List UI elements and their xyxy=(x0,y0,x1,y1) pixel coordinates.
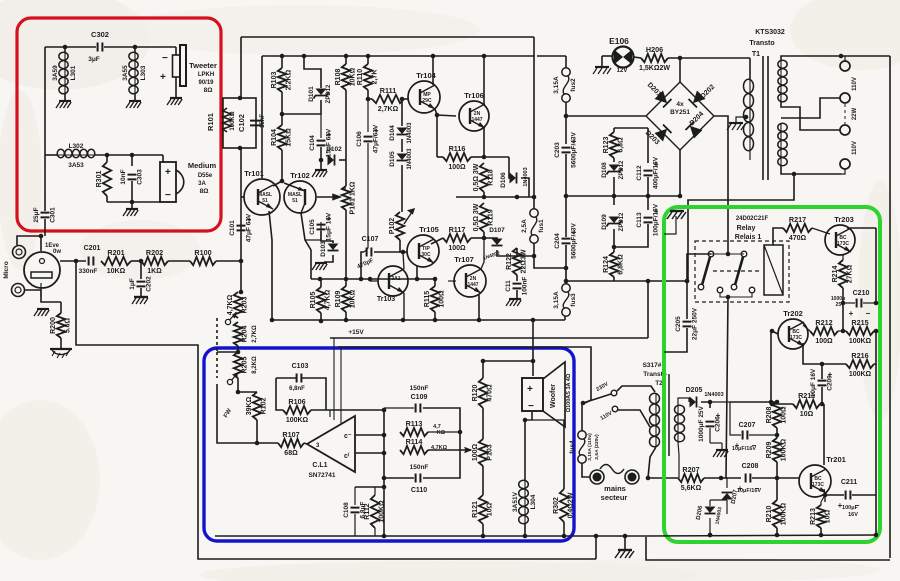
ground xyxy=(132,297,148,304)
resistor R123 xyxy=(603,132,625,158)
svg-text:R118: R118 xyxy=(488,169,495,185)
diode D106 xyxy=(510,173,517,184)
svg-text:Tr201: Tr201 xyxy=(826,455,846,464)
wire xyxy=(60,302,62,313)
svg-text:D107: D107 xyxy=(489,227,505,234)
resistor R114 xyxy=(400,437,428,454)
svg-text:1,5KΩ2W: 1,5KΩ2W xyxy=(639,65,670,72)
wire xyxy=(320,147,322,160)
wire xyxy=(776,528,778,535)
wire xyxy=(106,155,108,162)
wire xyxy=(521,178,529,197)
junction xyxy=(482,54,487,59)
svg-text:C302: C302 xyxy=(91,30,109,39)
junction xyxy=(415,277,420,282)
junction xyxy=(532,195,537,200)
red highlight box (crossover section) xyxy=(17,18,221,231)
svg-text:Relay: Relay xyxy=(737,225,756,232)
svg-text:100Ω: 100Ω xyxy=(781,406,788,424)
diode D201 xyxy=(646,82,672,108)
junction xyxy=(769,400,774,405)
svg-text:L302: L302 xyxy=(69,143,84,150)
svg-text:6,8Ω: 6,8Ω xyxy=(618,137,625,153)
capacitor C112 xyxy=(636,156,660,189)
junction xyxy=(531,318,536,323)
svg-text:P102: P102 xyxy=(389,218,396,234)
op-amp CL1 SN72741 xyxy=(307,416,355,472)
svg-text:fus4: fus4 xyxy=(569,440,576,454)
wire xyxy=(162,155,164,162)
junction xyxy=(726,295,731,300)
resistor R124 xyxy=(603,252,625,277)
wire xyxy=(710,496,721,506)
wire xyxy=(276,378,283,410)
resistor R120 xyxy=(472,378,494,408)
wire xyxy=(687,254,711,281)
transistor Tr201 xyxy=(799,455,846,497)
wire xyxy=(216,318,218,352)
wire xyxy=(874,331,876,364)
wire xyxy=(384,408,408,410)
svg-text:100Ω: 100Ω xyxy=(448,245,466,252)
svg-text:15nF: 15nF xyxy=(260,114,266,128)
ground xyxy=(506,299,521,306)
resistor P103 xyxy=(472,439,494,466)
wire xyxy=(582,463,590,477)
relay contact terminal xyxy=(717,287,723,293)
wire xyxy=(436,115,438,157)
capacitor C208 xyxy=(738,474,760,494)
junction xyxy=(792,172,797,177)
svg-text:10Ω: 10Ω xyxy=(487,502,494,516)
svg-text:150nF: 150nF xyxy=(410,464,429,471)
svg-text:5.6Ω: 5.6Ω xyxy=(65,317,72,333)
low voltage bus xyxy=(566,280,687,282)
svg-text:mains: mains xyxy=(604,484,626,493)
svg-text:−: − xyxy=(162,53,168,64)
svg-text:c⁻: c⁻ xyxy=(344,433,352,440)
inductor L303 xyxy=(122,52,147,94)
svg-text:C105: C105 xyxy=(309,219,316,235)
capacitor C108 xyxy=(343,501,367,518)
wire xyxy=(730,401,777,403)
wire xyxy=(517,255,534,257)
svg-text:2.2KΩ: 2.2KΩ xyxy=(286,69,293,90)
lower amp bus xyxy=(272,319,565,321)
svg-text:8Ω: 8Ω xyxy=(204,87,213,94)
junction xyxy=(562,534,567,539)
wire xyxy=(776,462,778,478)
resistor R302 xyxy=(553,489,575,522)
wire xyxy=(843,302,855,304)
wire xyxy=(668,57,750,59)
wire xyxy=(565,56,567,68)
junction xyxy=(239,290,244,295)
wire xyxy=(730,402,741,435)
junction xyxy=(708,533,713,538)
wire xyxy=(448,280,456,282)
svg-text:C205: C205 xyxy=(675,316,682,332)
wire xyxy=(803,343,846,364)
inductor L301 xyxy=(52,52,77,94)
svg-text:47μF/63V: 47μF/63V xyxy=(373,124,380,153)
wire xyxy=(321,231,333,243)
junction xyxy=(382,408,387,413)
svg-text:Tr103: Tr103 xyxy=(377,296,395,303)
mechanical link dashes xyxy=(713,270,760,272)
winding link wire xyxy=(781,102,840,130)
junction xyxy=(302,54,307,59)
junction xyxy=(775,400,780,405)
svg-text:10nF: 10nF xyxy=(120,169,127,184)
svg-text:Tr102: Tr102 xyxy=(290,171,310,180)
svg-text:R208: R208 xyxy=(766,407,773,424)
woofer speaker xyxy=(522,362,565,427)
transistor Tr101 xyxy=(244,169,280,215)
svg-text:+: + xyxy=(165,167,171,178)
wire xyxy=(344,186,346,190)
junction xyxy=(564,114,569,119)
wire xyxy=(483,128,485,157)
capacitor C113 xyxy=(636,203,660,236)
svg-text:27KΩ: 27KΩ xyxy=(847,264,854,283)
wire xyxy=(823,404,825,465)
junction xyxy=(685,279,690,284)
svg-text:6,8nF: 6,8nF xyxy=(289,386,305,392)
wire xyxy=(168,260,190,262)
svg-text:R205: R205 xyxy=(242,357,249,374)
diode D107 xyxy=(492,239,503,246)
fuse fus1 xyxy=(521,209,545,243)
ground xyxy=(167,98,182,105)
junction xyxy=(708,400,713,405)
wire xyxy=(483,192,485,197)
wire xyxy=(370,279,378,281)
resistor R110 xyxy=(357,64,379,90)
junction xyxy=(382,451,387,456)
svg-text:51: 51 xyxy=(292,198,298,204)
capacitor C209 xyxy=(810,368,834,397)
mains voltage selector switch S301 xyxy=(583,390,618,412)
junction xyxy=(359,277,364,282)
svg-text:T2: T2 xyxy=(655,380,663,387)
capacitor C206 xyxy=(698,405,722,441)
junction xyxy=(770,329,775,334)
wire xyxy=(430,55,534,57)
wire xyxy=(95,154,163,156)
wire xyxy=(302,378,326,410)
wire xyxy=(704,477,741,479)
junction xyxy=(482,195,487,200)
wire xyxy=(384,407,414,409)
fuse fus2 xyxy=(553,68,577,102)
wire xyxy=(721,443,723,449)
svg-text:2,7KΩ: 2,7KΩ xyxy=(252,325,258,343)
long supply wire xyxy=(533,56,535,197)
wire xyxy=(613,247,615,252)
wire xyxy=(720,293,752,297)
wire xyxy=(710,401,730,403)
svg-text:KΩ: KΩ xyxy=(437,430,446,436)
svg-text:0w: 0w xyxy=(53,249,61,255)
wire xyxy=(354,487,356,505)
junction xyxy=(431,54,436,59)
ground xyxy=(312,263,327,270)
ground xyxy=(312,170,327,177)
svg-text:6,8KΩ: 6,8KΩ xyxy=(618,254,625,275)
wire xyxy=(648,447,656,478)
svg-text:R114: R114 xyxy=(406,437,423,446)
resistor R112 xyxy=(364,495,386,528)
svg-text:LPKH: LPKH xyxy=(198,72,214,78)
wire xyxy=(241,196,244,198)
ground xyxy=(34,309,49,316)
junction xyxy=(678,56,683,61)
ground xyxy=(667,211,686,219)
resistor R214 xyxy=(832,260,854,288)
resistor R216 xyxy=(846,351,874,378)
resistor R215 xyxy=(846,318,874,345)
svg-text:R119: R119 xyxy=(488,209,495,225)
svg-text:R106: R106 xyxy=(288,397,305,406)
resistor R101 xyxy=(223,108,231,132)
wire xyxy=(678,442,679,478)
svg-text:D108: D108 xyxy=(601,162,608,178)
wire xyxy=(679,58,681,82)
wire xyxy=(45,46,96,48)
svg-text:Woofer: Woofer xyxy=(550,384,557,408)
junction xyxy=(280,179,285,184)
svg-text:22μF 250V: 22μF 250V xyxy=(692,307,699,340)
wire xyxy=(281,56,283,68)
svg-text:R213: R213 xyxy=(810,508,817,525)
inductor T1 primary xyxy=(744,79,754,151)
wire xyxy=(497,250,517,256)
wire xyxy=(240,148,242,261)
svg-text:D105: D105 xyxy=(389,151,396,167)
svg-text:10KΩ: 10KΩ xyxy=(107,268,126,275)
wire xyxy=(516,290,518,298)
junction xyxy=(515,195,520,200)
junction xyxy=(482,236,487,241)
resistor R116 xyxy=(443,144,471,171)
blue highlight box (filter section) xyxy=(204,348,574,541)
wire xyxy=(131,181,133,202)
wire xyxy=(736,117,745,122)
junction xyxy=(238,96,243,101)
wire xyxy=(345,210,347,286)
svg-text:4,7KΩ: 4,7KΩ xyxy=(227,294,234,315)
capacitor C110 xyxy=(416,474,421,483)
wire xyxy=(240,261,242,292)
svg-text:1447: 1447 xyxy=(467,282,478,288)
resistor R202 xyxy=(141,248,168,275)
diode D109 xyxy=(601,212,625,231)
wire xyxy=(838,330,846,332)
transistor Tr106 xyxy=(459,91,489,131)
svg-text:3,15A (110v): 3,15A (110v) xyxy=(587,433,593,461)
svg-text:fus1: fus1 xyxy=(538,219,545,233)
wire xyxy=(752,477,777,479)
wire xyxy=(471,237,484,239)
svg-text:R216: R216 xyxy=(851,351,868,360)
right frame wire xyxy=(889,56,891,558)
wire xyxy=(305,222,321,240)
terminal xyxy=(840,93,850,103)
svg-text:3A55: 3A55 xyxy=(122,65,129,81)
relay contact terminal xyxy=(749,287,755,293)
wire xyxy=(276,377,296,379)
junction xyxy=(523,418,528,423)
junction xyxy=(344,277,349,282)
diode D105 xyxy=(389,148,413,170)
svg-text:173C: 173C xyxy=(812,482,824,488)
wire xyxy=(566,115,646,117)
junction xyxy=(770,402,775,407)
wire xyxy=(664,280,687,282)
diode D103 xyxy=(320,241,339,257)
svg-text:100KΩ: 100KΩ xyxy=(286,417,309,424)
svg-text:R212: R212 xyxy=(815,318,832,327)
junction xyxy=(366,97,371,102)
wire xyxy=(437,115,456,116)
wire xyxy=(875,303,877,331)
wire xyxy=(614,127,648,129)
svg-text:L301: L301 xyxy=(70,65,77,80)
junction xyxy=(564,279,569,284)
svg-text:C202: C202 xyxy=(146,276,153,292)
capacitor C104 xyxy=(309,128,333,157)
wire xyxy=(688,398,690,402)
wire xyxy=(844,56,846,61)
wire xyxy=(595,538,597,559)
junction xyxy=(255,441,260,446)
wire xyxy=(416,266,418,279)
svg-text:100KΩ: 100KΩ xyxy=(781,502,788,525)
wire xyxy=(749,434,777,436)
junction xyxy=(236,350,241,355)
resistor R209 xyxy=(766,438,788,462)
svg-text:+: + xyxy=(849,309,854,318)
wire xyxy=(565,196,567,237)
capacitor C201 xyxy=(89,257,94,266)
svg-text:2,5A (220v): 2,5A (220v) xyxy=(594,434,600,460)
wire xyxy=(563,420,565,489)
bottom wire of medium branch xyxy=(107,201,160,203)
junction xyxy=(280,54,285,59)
svg-text:C208: C208 xyxy=(742,463,759,470)
wire xyxy=(311,249,321,251)
XLR pin terminal xyxy=(13,246,26,259)
junction xyxy=(532,254,537,259)
svg-text:fus3: fus3 xyxy=(570,293,577,307)
svg-text:100Ω: 100Ω xyxy=(439,290,446,308)
svg-text:ZPD12: ZPD12 xyxy=(326,84,332,103)
junction xyxy=(74,259,79,264)
wire xyxy=(634,57,641,58)
junction xyxy=(523,534,528,539)
svg-text:100KΩ: 100KΩ xyxy=(230,111,236,130)
capacitor C103 xyxy=(297,374,302,383)
wire xyxy=(875,364,877,495)
svg-text:R217: R217 xyxy=(789,215,806,224)
junction xyxy=(130,153,135,158)
wire xyxy=(710,499,727,501)
svg-text:Medium: Medium xyxy=(188,161,217,170)
junction xyxy=(382,476,387,481)
svg-text:R116: R116 xyxy=(449,144,466,153)
capacitor C203 xyxy=(554,131,578,167)
svg-text:R107: R107 xyxy=(282,430,299,439)
junction xyxy=(678,194,683,199)
svg-text:68Ω: 68Ω xyxy=(284,450,298,457)
svg-text:Ω100AS 3A 4Ω: Ω100AS 3A 4Ω xyxy=(566,373,572,412)
svg-text:R111: R111 xyxy=(380,86,396,95)
wire xyxy=(664,328,687,352)
wire xyxy=(320,114,322,138)
terminal 110V xyxy=(840,159,850,169)
capacitor C205 xyxy=(675,307,699,340)
fuse fus4 xyxy=(569,431,586,463)
wire xyxy=(842,255,844,260)
resistor R210 xyxy=(766,500,788,528)
ground (dome) xyxy=(50,349,72,358)
wire xyxy=(320,160,322,169)
wire xyxy=(131,260,141,262)
resistor R203 xyxy=(227,292,249,318)
svg-text:ZPD12: ZPD12 xyxy=(619,212,625,231)
junction xyxy=(366,54,371,59)
wire xyxy=(374,251,403,253)
diode D104 xyxy=(389,122,413,144)
svg-text:R215: R215 xyxy=(851,318,868,327)
resistor R108 xyxy=(335,64,357,90)
svg-text:D103: D103 xyxy=(320,241,327,257)
wire xyxy=(311,409,384,411)
input signal wire xyxy=(60,260,86,262)
diode D101 xyxy=(308,84,332,103)
wire xyxy=(471,156,484,158)
tweeter speaker LS303 xyxy=(160,45,186,86)
resistor R119 xyxy=(473,203,495,232)
wire xyxy=(648,477,678,479)
wire xyxy=(345,90,347,186)
junction xyxy=(564,194,569,199)
pot gang dashed link xyxy=(216,352,218,378)
resistor R217 xyxy=(783,215,812,242)
svg-text:1000μF 25V: 1000μF 25V xyxy=(698,405,705,441)
wire xyxy=(401,165,403,212)
resistor R212 xyxy=(810,318,838,345)
wire xyxy=(581,403,583,431)
potentiometer wiper xyxy=(227,372,238,385)
junction xyxy=(400,97,405,102)
green highlight box (aux supply section) xyxy=(664,207,880,542)
transistor collector wire xyxy=(432,56,434,85)
wire xyxy=(533,197,535,209)
wire xyxy=(532,361,534,376)
wire xyxy=(364,143,368,252)
junction xyxy=(382,534,387,539)
junction xyxy=(819,533,824,538)
wire xyxy=(237,346,239,352)
resistor R121 xyxy=(472,495,494,524)
wire xyxy=(773,228,783,245)
relay box xyxy=(695,241,789,302)
lamp E106 xyxy=(613,47,634,68)
resistor R301 xyxy=(96,162,111,196)
wire xyxy=(686,281,688,319)
